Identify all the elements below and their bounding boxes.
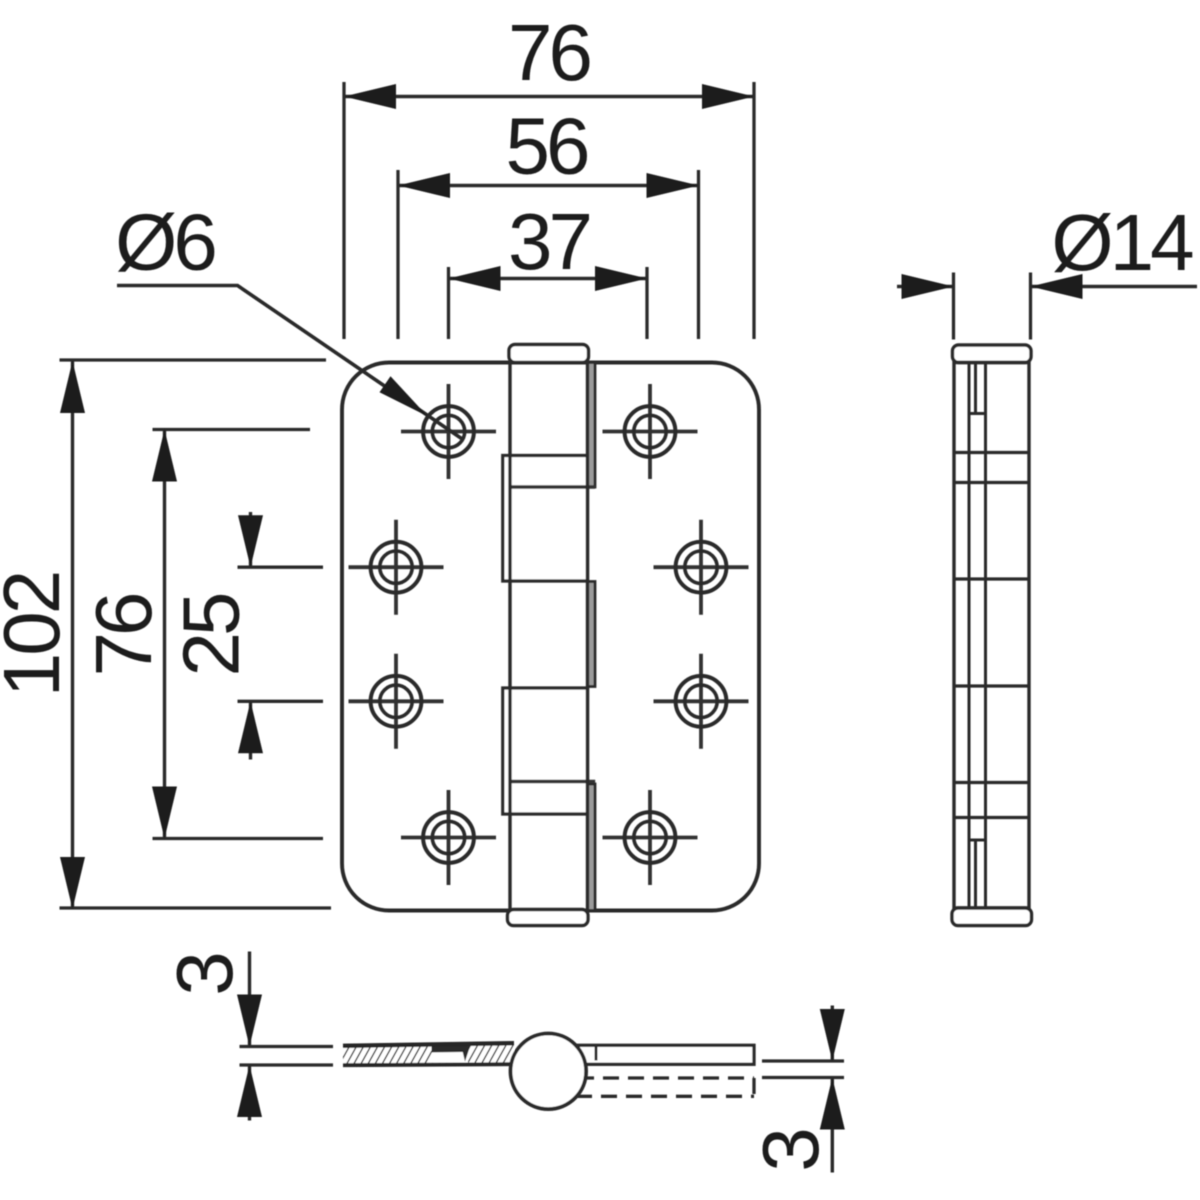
- svg-text:37: 37: [508, 197, 589, 286]
- svg-text:56: 56: [506, 102, 587, 191]
- label diameter 6: [115, 198, 214, 287]
- screw hole top-left: [401, 384, 496, 479]
- screw hole mid-right lower: [654, 654, 749, 749]
- side view: leaf edge inner lines: [969, 363, 986, 907]
- dimension 56: value label: [506, 102, 587, 191]
- dimension 76 top: extension lines: [344, 82, 754, 339]
- dimension 76 left: extension lines: [153, 430, 324, 839]
- hinge pin cap top: [509, 345, 589, 363]
- section view: hatched left leaf: [343, 1043, 514, 1065]
- dimension 25: dimension line with outside arrows: [238, 512, 263, 760]
- dimension diameter 14: extension lines: [954, 273, 1031, 340]
- dimension 3 right: value label: [746, 1131, 835, 1172]
- section view: left leaf extension lines: [240, 1047, 334, 1066]
- screw hole mid-left upper: [349, 520, 444, 615]
- section view: right leaf extension lines: [762, 1061, 844, 1078]
- side view: body outline: [954, 363, 1029, 909]
- side view: pin cap bottom: [952, 908, 1032, 926]
- knuckle boundary line lower: [510, 780, 595, 784]
- hinge pin cap bottom: [508, 910, 589, 926]
- knuckle main column: [510, 363, 588, 911]
- knuckle offset segment lower (back leaf): [503, 688, 588, 814]
- dimension 56: dimension line with arrows: [398, 173, 699, 198]
- knuckle offset segment upper (back leaf): [503, 456, 588, 582]
- dimension 3 left: value label: [160, 955, 249, 996]
- dimension 37: value label: [508, 197, 589, 286]
- knuckle boundary line upper: [510, 485, 595, 489]
- svg-text:25: 25: [167, 594, 256, 676]
- dimension diameter 14: dimension line with outside arrows: [897, 274, 1197, 299]
- screw hole bottom-right: [603, 790, 698, 885]
- bearing ring middle (gray): [588, 582, 596, 687]
- svg-text:Ø6: Ø6: [115, 198, 214, 287]
- svg-text:3: 3: [160, 955, 249, 996]
- dimension 25: value label: [167, 594, 256, 676]
- side view: pin cap top: [953, 345, 1032, 363]
- section view: right leaf (solid position): [578, 1045, 754, 1064]
- dimension 3 right: dimension line with outside arrows: [820, 1006, 845, 1173]
- dimension 56: extension lines: [398, 170, 699, 339]
- svg-text:Ø14: Ø14: [1051, 198, 1193, 287]
- screw hole mid-right upper: [654, 520, 749, 615]
- bearing ring upper (gray): [588, 363, 596, 488]
- dimension 37: extension lines: [449, 267, 648, 339]
- dimension 102: extension lines: [60, 360, 332, 908]
- screw hole bottom-left: [401, 790, 496, 885]
- screw hole mid-left lower: [349, 654, 444, 749]
- dimension 76 left: value label: [79, 595, 168, 676]
- svg-text:102: 102: [0, 573, 76, 697]
- screw hole top-right: [603, 384, 698, 479]
- dimension 102: dimension line with arrows: [60, 361, 85, 909]
- dimension 76 top: value label: [508, 8, 589, 97]
- side view: knuckle division lines: [954, 453, 1029, 818]
- svg-text:3: 3: [746, 1131, 835, 1172]
- section view: right leaf (dashed open position): [576, 1078, 754, 1096]
- section view: hinge pin circle: [511, 1034, 587, 1110]
- svg-text:76: 76: [79, 595, 168, 676]
- dimension 76 left: dimension line with arrows: [152, 430, 177, 839]
- dimension 37: dimension line with arrows: [449, 266, 648, 291]
- dimension 3 left: dimension line with outside arrows: [237, 952, 262, 1121]
- dimension diameter 14: value label: [1051, 198, 1193, 287]
- dimension 102: value label: [0, 573, 76, 697]
- svg-text:76: 76: [508, 8, 589, 97]
- front view: hinge leaf outline: [342, 363, 759, 911]
- dimension 76 top: dimension line with arrows: [344, 84, 754, 109]
- bearing ring lower (gray): [588, 784, 596, 911]
- dimension 25: extension lines: [238, 567, 324, 701]
- leader line for diameter 6: [117, 286, 462, 439]
